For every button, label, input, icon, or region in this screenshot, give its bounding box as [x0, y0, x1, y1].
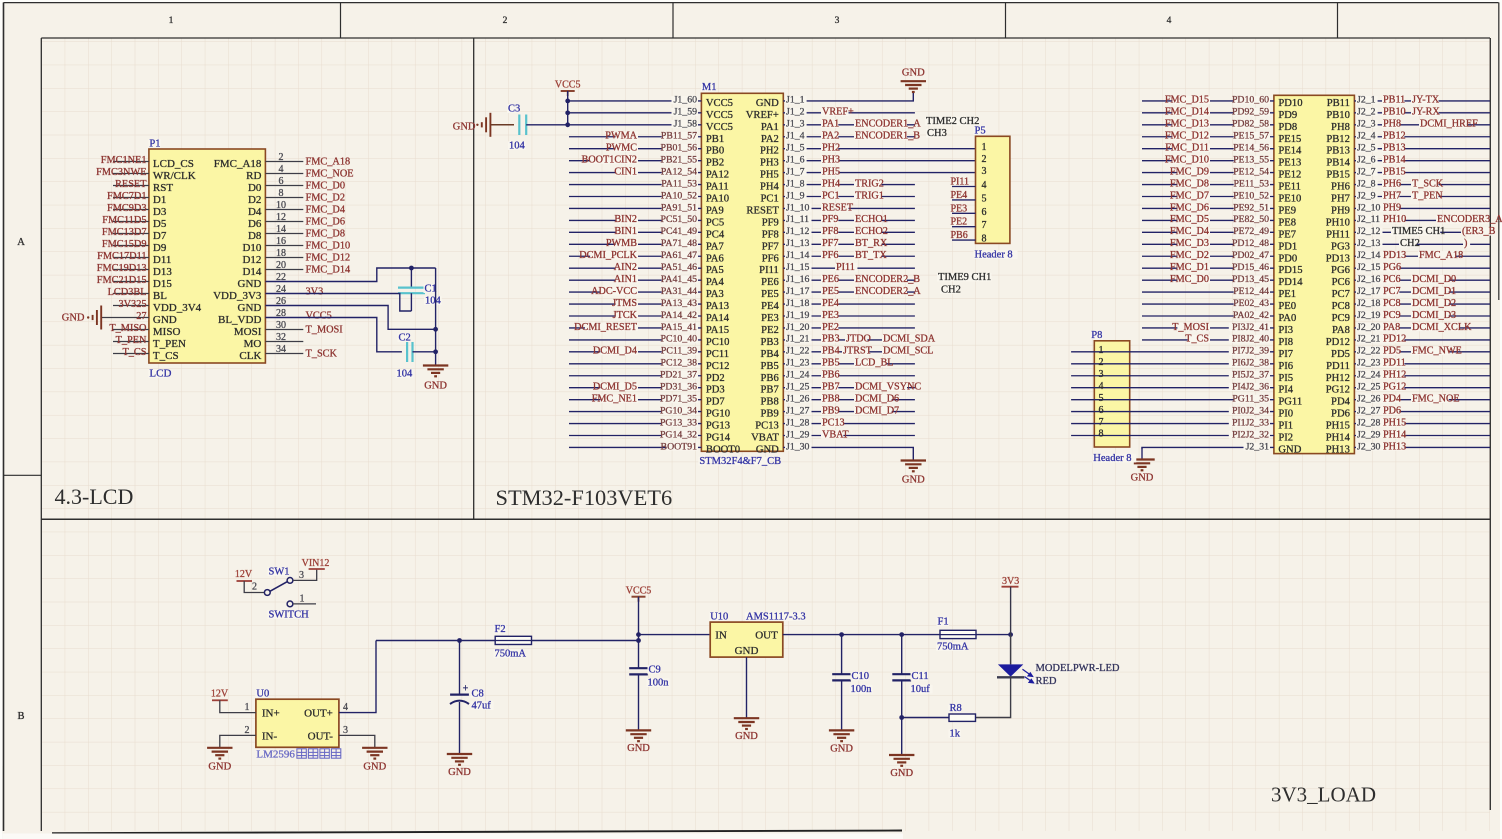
- svg-text:PWMA: PWMA: [605, 131, 637, 142]
- svg-text:PF6: PF6: [822, 250, 838, 261]
- svg-text:12V: 12V: [211, 689, 229, 700]
- J2 pin text J2_7: [1356, 168, 1378, 176]
- svg-text:PH12: PH12: [1383, 370, 1406, 381]
- J2 pin text J2_19: [1356, 311, 1383, 319]
- svg-text:PI11: PI11: [759, 265, 779, 276]
- svg-text:GND: GND: [238, 278, 262, 290]
- svg-text:ECHO1: ECHO1: [855, 214, 888, 225]
- svg-text:AIN1: AIN1: [614, 274, 637, 285]
- M1 right pin wire row 12: [783, 231, 915, 233]
- J2 left pin wire row 11: [1142, 219, 1274, 221]
- net label PE5: [821, 287, 838, 295]
- svg-text:DCMI_VSYNC: DCMI_VSYNC: [855, 382, 921, 393]
- svg-text:PB14: PB14: [1383, 154, 1406, 165]
- junction VCC5 row1: [565, 99, 570, 104]
- M1 pin text J1_23: [785, 359, 812, 367]
- svg-text:A: A: [17, 237, 25, 248]
- svg-text:PH3: PH3: [822, 154, 840, 165]
- svg-text:PA8: PA8: [1383, 322, 1400, 333]
- net label PB14: [1382, 156, 1404, 164]
- net label PD5: [1382, 347, 1399, 355]
- M1 right pin wire row 17: [783, 291, 915, 293]
- net label FMC_D5: [1177, 215, 1210, 223]
- net label PB4: [821, 347, 838, 355]
- J2 pin text PE15_57: [1234, 132, 1270, 140]
- net label AIN2: [616, 263, 638, 271]
- svg-text:PWMB: PWMB: [606, 238, 637, 249]
- svg-text:PH9: PH9: [1383, 202, 1401, 213]
- net label TRIG2: [854, 179, 882, 187]
- svg-text:PG12: PG12: [1383, 382, 1406, 393]
- svg-text:PC7: PC7: [1332, 289, 1350, 300]
- junction C2 / GND vertical: [433, 349, 438, 354]
- svg-text:47uf: 47uf: [472, 701, 492, 712]
- net label PC9: [1382, 311, 1399, 319]
- net label PG6: [1382, 263, 1399, 271]
- wire U10 OUT to rail: [783, 634, 1011, 636]
- svg-text:PI0: PI0: [1278, 409, 1293, 420]
- svg-text:J1_3: J1_3: [786, 119, 805, 130]
- svg-text:PE12_54: PE12_54: [1233, 166, 1269, 177]
- svg-text:1: 1: [982, 142, 987, 153]
- svg-text:PC11_39: PC11_39: [661, 346, 697, 357]
- J2 pin text J2_4: [1356, 132, 1378, 140]
- J2 pin text J2_5: [1356, 144, 1378, 152]
- svg-text:PH10: PH10: [1326, 217, 1350, 228]
- wire VCC5 vertical through rails to C9: [638, 597, 640, 668]
- C1 label: [424, 284, 437, 293]
- net label FMC_D15: [1172, 96, 1210, 104]
- svg-text:PE3: PE3: [822, 310, 839, 321]
- P1 left pin 5 wire: [113, 185, 149, 187]
- svg-text:VIN12: VIN12: [302, 558, 330, 569]
- svg-text:3V3_LOAD: 3V3_LOAD: [1271, 783, 1376, 807]
- svg-text:FMC_D8: FMC_D8: [306, 229, 345, 240]
- type Header 8: [1092, 454, 1136, 463]
- svg-text:3: 3: [1099, 369, 1104, 380]
- svg-text:D1: D1: [153, 194, 166, 206]
- J2 left pin wire row 18: [1142, 303, 1274, 305]
- svg-text:J1_18: J1_18: [786, 298, 810, 309]
- svg-text:VCC5: VCC5: [306, 311, 332, 322]
- M1 right pin wire row 15: [783, 267, 915, 269]
- svg-text:PA1: PA1: [822, 119, 839, 130]
- svg-text:PA91_51: PA91_51: [661, 202, 697, 213]
- net label FMC_D13: [1172, 120, 1210, 128]
- J2 pin text PE12_54: [1234, 168, 1270, 176]
- svg-text:PA2: PA2: [761, 134, 779, 145]
- svg-text:PE02_43: PE02_43: [1233, 298, 1269, 309]
- svg-text:C8: C8: [472, 689, 484, 700]
- svg-text:5: 5: [982, 193, 987, 204]
- svg-text:FMC_D12: FMC_D12: [306, 253, 351, 264]
- M1 left pin wire row 18: [569, 303, 701, 305]
- svg-text:C3: C3: [508, 104, 520, 115]
- svg-text:J1_15: J1_15: [786, 262, 810, 273]
- net label PH4: [821, 179, 838, 187]
- svg-text:1: 1: [1099, 345, 1104, 356]
- M1 pin text PC11_39: [662, 347, 698, 355]
- P1 right pin 2 wire: [265, 161, 303, 163]
- M1 pin text J1_4: [785, 132, 807, 140]
- svg-text:PH9: PH9: [1331, 205, 1350, 216]
- svg-text:PA10: PA10: [706, 194, 729, 205]
- J2 left pin wire row 6: [1142, 160, 1274, 162]
- net label PH14: [1382, 430, 1404, 438]
- svg-text:PA13: PA13: [706, 301, 729, 312]
- M1 pin text J1_3: [785, 120, 807, 128]
- svg-text:PI3J2_41: PI3J2_41: [1232, 322, 1269, 333]
- svg-text:FMC_D4: FMC_D4: [306, 205, 345, 216]
- J2 right pin wire row 11: [1354, 219, 1490, 221]
- svg-text:PF7: PF7: [822, 238, 838, 249]
- net label JY-RX: [1411, 108, 1439, 116]
- J2 pin text J2_22: [1356, 347, 1383, 355]
- svg-text:PD5: PD5: [1331, 349, 1350, 360]
- svg-text:FMC_D7: FMC_D7: [1170, 190, 1209, 201]
- svg-text:J1_29: J1_29: [786, 429, 810, 440]
- wire rail to LED: [1010, 635, 1012, 665]
- J2 pin text PI8J2_40: [1229, 335, 1270, 343]
- switch SW1: [264, 590, 270, 596]
- svg-text:J2_2: J2_2: [1357, 107, 1376, 118]
- net label PD6: [1382, 406, 1399, 414]
- svg-text:PE3: PE3: [951, 203, 968, 214]
- svg-text:J1_27: J1_27: [786, 405, 810, 416]
- svg-text:TIME9 CH1: TIME9 CH1: [938, 272, 991, 283]
- J2 pin text PE10_52: [1234, 192, 1270, 200]
- M1 right pin wire row 26: [783, 399, 915, 401]
- wire U10 GND pin to ground: [746, 657, 748, 718]
- svg-text:PB10: PB10: [1383, 107, 1406, 118]
- svg-text:PH13: PH13: [1326, 444, 1350, 455]
- net label PWMC: [616, 144, 638, 152]
- J2 right pin wire row 14: [1354, 255, 1490, 257]
- svg-text:PF8: PF8: [762, 229, 779, 240]
- net label FMC_D8: [1177, 179, 1210, 187]
- svg-text:PE10: PE10: [1278, 194, 1301, 205]
- P1 left pin 31 wire: [113, 341, 149, 343]
- wire M1 row 6 to header P5: [783, 160, 975, 162]
- svg-text:PE2: PE2: [822, 322, 839, 333]
- J2 pin text J2_12: [1356, 227, 1383, 235]
- M1 pin text J1_12: [785, 227, 812, 235]
- svg-text:PH11: PH11: [1326, 229, 1350, 240]
- M1 pin text PG14_32: [662, 431, 698, 439]
- svg-text:AIN2: AIN2: [614, 262, 637, 273]
- P1 right pin 34 wire: [265, 353, 303, 355]
- svg-text:FMC_NWE: FMC_NWE: [1412, 346, 1462, 357]
- J2 right pin wire row 10: [1354, 207, 1490, 209]
- M1 right pin wire row 29: [783, 435, 915, 437]
- P1 right pin 12 wire: [265, 221, 303, 223]
- svg-text:VCC5: VCC5: [555, 80, 581, 91]
- M1 right pin wire row 14: [783, 255, 915, 257]
- P1 right pin 20 wire: [265, 269, 303, 271]
- wire C3 left: [491, 124, 515, 126]
- net label DCMI_D5: [600, 383, 638, 391]
- wire GND from P1 pin22: [265, 268, 435, 282]
- svg-text:PB10: PB10: [1326, 110, 1350, 121]
- J2 pin text J2_17: [1356, 287, 1383, 295]
- svg-text:PA12: PA12: [706, 170, 729, 181]
- M1 left pin wire row 11: [569, 219, 701, 221]
- C2 label: [398, 333, 411, 342]
- svg-text:LCD: LCD: [149, 368, 171, 380]
- svg-text:PA02_42: PA02_42: [1233, 310, 1269, 321]
- M1 pin text J1_60: [672, 96, 699, 104]
- C11 label: [911, 672, 929, 681]
- svg-text:J2_15: J2_15: [1357, 262, 1381, 273]
- svg-text:PB2: PB2: [706, 158, 724, 169]
- J2 pin text PE92_51: [1234, 204, 1270, 212]
- J2 left pin wire row 26: [1071, 399, 1274, 401]
- svg-text:PD31_36: PD31_36: [660, 382, 697, 393]
- svg-text:PB6: PB6: [951, 230, 968, 241]
- wire through P8 pin 1: [1093, 351, 1130, 353]
- net label JTDO DCMI_SDA: [845, 335, 867, 343]
- svg-text:BOOT1CIN2: BOOT1CIN2: [582, 154, 637, 165]
- svg-text:PD82_58: PD82_58: [1232, 119, 1269, 130]
- svg-text:RED: RED: [1036, 676, 1057, 687]
- svg-text:JY-TX: JY-TX: [1412, 95, 1440, 106]
- J2 right pin wire row 5: [1354, 148, 1490, 150]
- svg-text:PD9: PD9: [1278, 110, 1297, 121]
- net label PH6: [1382, 179, 1399, 187]
- svg-text:ENCODER1_A: ENCODER1_A: [855, 119, 921, 130]
- svg-text:PB12: PB12: [1383, 131, 1406, 142]
- J2 right pin wire row 13: [1354, 243, 1490, 245]
- svg-text:J1_19: J1_19: [786, 310, 810, 321]
- M1 pin text J1_10: [785, 204, 812, 212]
- J2 left pin wire row 20: [1142, 327, 1274, 329]
- svg-text:PH7: PH7: [1383, 190, 1401, 201]
- M1 pin text PC10_40: [662, 335, 698, 343]
- svg-text:T_CS: T_CS: [122, 347, 146, 358]
- svg-text:PE10_52: PE10_52: [1233, 190, 1269, 201]
- net label PB6: [821, 371, 838, 379]
- svg-text:PC9: PC9: [1383, 310, 1401, 321]
- svg-text:J2_24: J2_24: [1357, 370, 1381, 381]
- power port 3V3: [1002, 586, 1019, 588]
- svg-text:GND: GND: [208, 762, 231, 773]
- net label PF8: [821, 227, 838, 235]
- junction GND vertical / pin26: [433, 327, 438, 332]
- J2 left pin wire row 29: [1071, 435, 1274, 437]
- svg-text:VDD_3V4: VDD_3V4: [153, 302, 202, 314]
- net label FMC_D4: [1177, 227, 1210, 235]
- svg-text:PC51_50: PC51_50: [661, 214, 698, 225]
- svg-text:PA71_48: PA71_48: [661, 238, 697, 249]
- annotation TIME9 CH1: [937, 273, 992, 282]
- M1 right pin wire row 23: [783, 363, 915, 365]
- J2 pin text J2_11: [1356, 216, 1383, 224]
- J2 pin text PD92_59: [1234, 108, 1270, 116]
- net label DCMI_D4: [600, 347, 638, 355]
- J2 left pin wire row 2: [1142, 112, 1274, 114]
- svg-text:PC12_38: PC12_38: [661, 358, 698, 369]
- svg-text:GND: GND: [238, 302, 262, 314]
- net label PD11: [1382, 359, 1404, 367]
- svg-text:J2_9: J2_9: [1357, 190, 1376, 201]
- svg-text:FMC_D0: FMC_D0: [306, 181, 345, 192]
- net label ENCODER1_A: [854, 120, 907, 128]
- M1 pin text J1_13: [785, 239, 812, 247]
- svg-text:PG13_33: PG13_33: [660, 417, 697, 428]
- svg-text:750mA: 750mA: [937, 642, 969, 653]
- svg-text:PB13: PB13: [1326, 146, 1350, 157]
- svg-text:PB21_55: PB21_55: [661, 154, 698, 165]
- M1 pin text J1_20: [785, 323, 812, 331]
- M1 pin text J1_21: [785, 335, 812, 343]
- svg-text:PC7: PC7: [1383, 286, 1401, 297]
- svg-text:F2: F2: [495, 624, 506, 635]
- M1 pin text J1_29: [785, 431, 812, 439]
- J2 right pin wire row 20: [1354, 327, 1490, 329]
- svg-text:PB14: PB14: [1326, 158, 1350, 169]
- svg-text:PA7: PA7: [706, 241, 724, 252]
- wire switch pin1: [293, 603, 316, 605]
- svg-text:PA8: PA8: [1332, 325, 1350, 336]
- svg-text:PA41_45: PA41_45: [661, 274, 697, 285]
- svg-text:T_CS: T_CS: [153, 350, 179, 362]
- svg-text:3: 3: [343, 725, 348, 736]
- svg-text:SW1: SW1: [269, 567, 290, 578]
- C9 label: [648, 665, 661, 674]
- svg-text:J1_24: J1_24: [786, 370, 810, 381]
- svg-text:J1_60: J1_60: [674, 95, 698, 106]
- P1 left pin 15 wire: [113, 245, 149, 247]
- svg-text:D0: D0: [248, 182, 262, 194]
- svg-text:6: 6: [1099, 405, 1104, 416]
- J2 right pin wire row 15: [1354, 267, 1490, 269]
- net label BIN1: [616, 227, 638, 235]
- svg-text:T_PEN: T_PEN: [153, 338, 186, 350]
- svg-text:J1_21: J1_21: [786, 334, 810, 345]
- svg-text:PE11_53: PE11_53: [1233, 178, 1269, 189]
- wire through P8 pin 3: [1093, 375, 1130, 377]
- svg-text:DCMI_XCLK: DCMI_XCLK: [1412, 322, 1472, 333]
- J2 pin text J2_31: [1244, 443, 1271, 451]
- wire 3V3 from P1 pin24: [265, 294, 411, 312]
- net label T_MOSI: [1177, 323, 1210, 331]
- svg-text:PF9: PF9: [822, 214, 838, 225]
- M1 pin text PG13_33: [662, 419, 698, 427]
- J2 pin text PI3J2_41: [1229, 323, 1270, 331]
- annotation CH2: [940, 285, 958, 294]
- svg-text:PH8: PH8: [1383, 119, 1401, 130]
- J2 right pin wire row 7: [1354, 172, 1490, 174]
- svg-text:FMC13D7: FMC13D7: [102, 227, 147, 238]
- fuse F2: [495, 636, 531, 644]
- svg-text:PB9: PB9: [761, 409, 779, 420]
- M1 pin text PC41_49: [662, 227, 698, 235]
- designator P8: [1090, 331, 1103, 340]
- J2 pin text J2_18: [1356, 299, 1383, 307]
- svg-text:PD10_60: PD10_60: [1232, 95, 1269, 106]
- junction 3V3/LED: [1008, 632, 1013, 637]
- svg-text:PE4: PE4: [951, 190, 968, 201]
- annotation CH2: [1399, 239, 1417, 248]
- svg-text:PI1J2_33: PI1J2_33: [1232, 417, 1269, 428]
- M1 right pin wire row 8: [783, 184, 915, 186]
- C9 value 100n: [647, 678, 670, 687]
- net label ECHO1: [854, 215, 882, 223]
- wire rail left: [376, 640, 639, 642]
- svg-text:PD15: PD15: [1278, 265, 1302, 276]
- svg-text:PB1: PB1: [706, 134, 724, 145]
- net label PA1: [821, 120, 838, 128]
- svg-text:J1_2: J1_2: [786, 107, 805, 118]
- svg-text:FMC19D13: FMC19D13: [97, 263, 147, 274]
- M1 left pin wire row 27: [569, 411, 701, 413]
- svg-text:PA12_54: PA12_54: [661, 166, 697, 177]
- svg-text:D4: D4: [248, 206, 262, 218]
- svg-text:D14: D14: [242, 266, 261, 278]
- component type SWITCH: [268, 610, 302, 619]
- svg-text:PA15: PA15: [706, 325, 729, 336]
- svg-text:PH8: PH8: [1331, 122, 1350, 133]
- svg-text:FMC_D3: FMC_D3: [1170, 238, 1209, 249]
- svg-text:R8: R8: [950, 703, 962, 714]
- svg-text:OUT-: OUT-: [308, 730, 334, 742]
- P1 right pin 30 wire: [265, 329, 303, 331]
- svg-text:C2: C2: [399, 333, 411, 344]
- M1 pin text PA11_53: [662, 180, 698, 188]
- net label CIN1: [616, 167, 638, 175]
- J2 right pin wire row 2: [1354, 112, 1490, 114]
- net label FMC_D6: [1177, 203, 1210, 211]
- net label PB7: [821, 383, 838, 391]
- net label PE2: [821, 323, 838, 331]
- J2 left pin wire row 21: [1142, 339, 1274, 341]
- M1 left pin wire row 8: [569, 184, 701, 186]
- wire through P8 pin 2: [1093, 363, 1130, 365]
- svg-text:J1_23: J1_23: [786, 358, 810, 369]
- M1 pin text J1_9: [785, 192, 807, 200]
- svg-text:J1_13: J1_13: [786, 238, 810, 249]
- M1 pin text J1_22: [785, 347, 812, 355]
- P1 left pin 21 wire: [113, 281, 149, 283]
- svg-text:PA51_46: PA51_46: [661, 262, 697, 273]
- resistor R8: [949, 714, 976, 721]
- svg-text:GND: GND: [830, 744, 853, 755]
- wire C3 to VCC5 rail: [526, 124, 568, 126]
- svg-text:FMC17D11: FMC17D11: [97, 251, 146, 262]
- svg-text:PI6: PI6: [1278, 361, 1293, 372]
- net label T_CS: [1188, 335, 1210, 343]
- wire 12V to U0 pin1: [220, 700, 256, 712]
- net label BT_TX: [854, 251, 882, 259]
- svg-text:GND: GND: [453, 122, 476, 133]
- svg-text:PB3: PB3: [822, 334, 840, 345]
- svg-text:Header 8: Header 8: [1093, 453, 1131, 464]
- M1 pin text PB21_55: [662, 156, 698, 164]
- M1 pin text J1_1: [785, 96, 807, 104]
- annotation TIME5 CH1: [1391, 227, 1440, 236]
- net label ENCODER1_B: [854, 132, 907, 140]
- M1 pin text J1_19: [785, 311, 812, 319]
- M1 left pin wire row 25: [569, 387, 701, 389]
- svg-text:IN+: IN+: [262, 708, 280, 720]
- J2 pin text J2_30: [1356, 443, 1383, 451]
- M1 pin text PA41_45: [662, 275, 698, 283]
- svg-text:D8: D8: [248, 230, 262, 242]
- P1 left pin 23 wire: [113, 293, 149, 295]
- net label DCMI_PCLK: [590, 251, 638, 259]
- J2 pin text J2_8: [1356, 180, 1378, 188]
- net label JTRST DCMI_SCL: [842, 347, 870, 355]
